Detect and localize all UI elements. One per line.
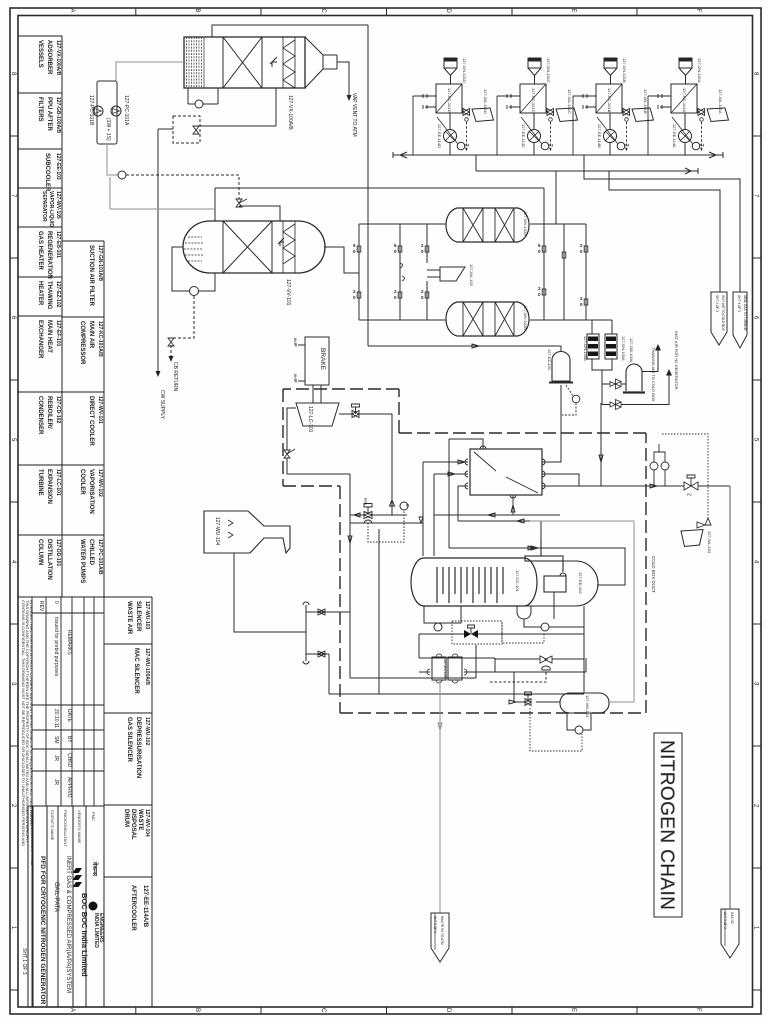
wire vessel top to right header — [212, 25, 368, 37]
wire web 678 — [350, 645, 476, 678]
svg-text:127-WV-102: 127-WV-102 — [97, 469, 103, 497]
svg-text:BOC BOC India Limited: BOC BOC India Limited — [80, 893, 89, 977]
svg-text:COMPRESSOR: COMPRESSOR — [79, 321, 85, 365]
svg-text:127-WL-101C: 127-WL-101C — [567, 89, 572, 114]
svg-text:A: A — [69, 9, 75, 13]
wire CB return dashed — [171, 296, 194, 358]
control valve black — [464, 625, 478, 638]
border ticks right — [753, 136, 762, 990]
PRV control valve assembly — [350, 513, 407, 517]
wire CC101 trap — [517, 592, 584, 627]
wire vessel2 top nozzle — [214, 188, 216, 221]
svg-text:COLUMN: COLUMN — [37, 539, 43, 565]
brake nozzles — [296, 344, 305, 383]
wire web 694 — [329, 693, 584, 695]
stack silencer 127-WU-104 — [204, 511, 290, 553]
equipment table column 3 grid — [104, 597, 152, 1007]
svg-text:MAIN AIR: MAIN AIR — [88, 321, 94, 349]
vessel VX-100B dome hatch — [184, 237, 203, 261]
svg-text:0: 0 — [53, 601, 59, 604]
svg-text:127-CD-102: 127-CD-102 — [55, 396, 61, 423]
wire turbine inlet lower — [287, 458, 350, 474]
svg-text:WASTE N2 TO ATM: WASTE N2 TO ATM — [440, 916, 444, 945]
instrument bubble G sump — [434, 623, 442, 631]
svg-text:वेकन्स: वेकन्स — [91, 861, 99, 877]
svg-text:F: F — [695, 9, 701, 13]
vessel VX-100A X-bed — [223, 37, 262, 88]
svg-text:127-EF-101: 127-EF-101 — [55, 320, 61, 347]
wire frame vertical 564 — [563, 224, 565, 320]
svg-text:B: B — [194, 1008, 200, 1012]
instrument bubbles 3 3 — [650, 444, 669, 486]
instrument bubble PDI — [195, 100, 203, 108]
pump 127-PC-101B — [93, 106, 103, 116]
svg-text:D: D — [445, 9, 451, 14]
signal dotted sump — [502, 623, 544, 643]
header A suction — [393, 152, 723, 158]
svg-text:THAWING: THAWING — [46, 281, 52, 310]
instrument bubble G reboiler — [541, 623, 549, 631]
wire thawing air line — [602, 350, 658, 384]
vessel VX-100B chevron band — [283, 221, 295, 273]
wire lateral 515 — [434, 513, 560, 517]
signal dotted to PSV — [662, 434, 708, 518]
svg-text:PPU AFTER: PPU AFTER — [46, 97, 52, 131]
svg-text:CHILLED: CHILLED — [88, 539, 94, 566]
equipment table col1 texts — [37, 40, 61, 580]
svg-text:INTENDED THIRD PARTIES WITHOUT: INTENDED THIRD PARTIES WITHOUT CONSENT A… — [29, 600, 34, 827]
svg-text:VENDOR'S NAME: VENDOR'S NAME — [77, 810, 82, 844]
wire drum bottom loop — [567, 713, 591, 730]
svg-text:FILTERS: FILTERS — [37, 97, 43, 122]
svg-text:127-WL-104: 127-WL-104 — [707, 531, 712, 554]
wire inst air line — [602, 375, 669, 405]
svg-text:SHT 2 OF 3: SHT 2 OF 3 — [715, 295, 719, 312]
vessel 127-VX-100B regen adsorber body — [183, 221, 325, 273]
svg-text:(1W + 1S): (1W + 1S) — [105, 118, 111, 141]
svg-text:127-EZ-101: 127-EZ-101 — [547, 349, 552, 371]
signal dashed to valve — [490, 671, 546, 682]
svg-text:SUCTION AIR FILTER: SUCTION AIR FILTER — [88, 245, 94, 307]
vessel VX-100B X-bed — [223, 221, 272, 273]
svg-text:WASTE AIR: WASTE AIR — [126, 601, 132, 635]
valve turbine outlet with actuator — [352, 404, 360, 418]
wire vap vent — [337, 62, 349, 96]
wire utility to vessel1 bottom — [200, 88, 276, 126]
wire lateral 523 — [350, 517, 423, 523]
wire EP nozzle 462 — [423, 460, 468, 464]
valve inst air double — [610, 400, 621, 410]
valve thawing double — [610, 379, 621, 389]
svg-text:127-VX-100A/B: 127-VX-100A/B — [287, 95, 293, 130]
svg-text:GAS SILENCER: GAS SILENCER — [126, 717, 132, 763]
svg-text:127-PC-101B: 127-PC-101B — [88, 95, 94, 126]
flag P2 waste air — [733, 292, 747, 348]
wire frame vertical 427 — [426, 224, 428, 320]
signal dotted LV loop — [530, 708, 582, 751]
svg-text:EXPANSION: EXPANSION — [46, 469, 52, 504]
wire frame vertical 359 — [358, 224, 360, 320]
wire waste N2 down gray — [438, 678, 442, 913]
svg-text:SILENCER: SILENCER — [135, 601, 141, 632]
valve manifold lower — [318, 651, 325, 657]
svg-text:127-EE-114D: 127-EE-114D — [437, 124, 442, 148]
PSV relief valve — [697, 518, 711, 528]
svg-text:127-WL-101A: 127-WL-101A — [718, 89, 723, 114]
wire EP nozzle 486 — [458, 486, 468, 521]
svg-text:CONDENSER: CONDENSER — [37, 396, 43, 435]
svg-text:127-PC-101A/B: 127-PC-101A/B — [97, 539, 103, 575]
svg-text:127-GB-100A: 127-GB-100A — [629, 338, 634, 363]
flag waste N2 bottom — [431, 913, 449, 962]
CC101 left sump — [424, 606, 461, 623]
svg-text:WATER PUMPS: WATER PUMPS — [79, 539, 85, 583]
svg-text:SHT 2 OF 3: SHT 2 OF 3 — [433, 916, 437, 933]
svg-text:127-GN-100B: 127-GN-100B — [583, 336, 588, 361]
svg-text:127-EE-114A: 127-EE-114A — [672, 124, 677, 148]
svg-text:127-GN-101D: 127-GN-101D — [462, 58, 467, 83]
svg-text:127-WV-101: 127-WV-101 — [97, 396, 103, 424]
svg-text:Issued for prebid purposes: Issued for prebid purposes — [53, 617, 59, 677]
wire regen header — [215, 187, 544, 189]
svg-text:127-DD-101: 127-DD-101 — [55, 539, 61, 566]
svg-text:VESSELS: VESSELS — [37, 40, 43, 68]
svg-text:127-WL-101D: 127-WL-101D — [483, 89, 488, 114]
heater 127-GN-100A — [605, 334, 617, 359]
nitrogen chain box — [654, 733, 682, 917]
border ticks top — [136, 8, 637, 16]
svg-text:INERT GAS & COMPRESSED AIR(IA/: INERT GAS & COMPRESSED AIR(IA/PA)SYSTEM — [65, 856, 71, 993]
svg-text:COLD BOX DUCT: COLD BOX DUCT — [651, 556, 656, 593]
wire valve to vessel2 top — [239, 206, 280, 221]
EP-101 nozzles — [465, 446, 545, 498]
svg-text:SM: SM — [53, 736, 59, 744]
svg-text:127-KC-101A/B: 127-KC-101A/B — [97, 321, 103, 357]
svg-text:GAS N2: GAS N2 — [730, 912, 734, 924]
border grid numbers left — [10, 72, 16, 930]
svg-text:ADSORBER: ADSORBER — [46, 40, 52, 75]
svg-text:127-KC-101D: 127-KC-101D — [447, 88, 452, 113]
svg-text:JR: JR — [53, 755, 59, 762]
svg-text:D: D — [445, 1008, 451, 1013]
header B discharge — [476, 168, 698, 174]
border grid letters top — [69, 9, 701, 14]
reboiler condenser 127-CC-101 — [411, 558, 537, 606]
compressor unit 1 127-KC-101A — [413, 58, 494, 155]
svg-text:TURBINE: TURBINE — [37, 469, 43, 496]
vessel VX-100A chevron band — [283, 37, 295, 88]
wire frame vertical 544 — [543, 188, 545, 320]
svg-text:INST AIR FOR N2 GENERATOR: INST AIR FOR N2 GENERATOR — [674, 331, 679, 390]
svg-text:NITROGEN CHAIN: NITROGEN CHAIN — [656, 740, 677, 910]
svg-text:C: C — [320, 9, 326, 14]
compressor unit 2 127-KC-101B — [497, 58, 578, 155]
svg-text:BKO: BKO — [293, 338, 297, 346]
wire riser 423 — [422, 462, 424, 556]
svg-text:127-GB-100A/B: 127-GB-100A/B — [55, 97, 61, 134]
border grid numbers right — [753, 72, 759, 930]
svg-text:MAIN HEAT: MAIN HEAT — [46, 320, 52, 353]
wire vessel2 outlet right — [324, 247, 359, 273]
svg-text:127-WU-100A/B: 127-WU-100A/B — [144, 648, 150, 685]
svg-text:COOLER: COOLER — [79, 469, 85, 495]
confidentiality note strip — [21, 600, 34, 846]
vessel VX-100B flow arrow — [278, 238, 284, 246]
brake box — [305, 337, 329, 385]
vessel 127-WV-102B vaporisation cooler — [446, 302, 529, 336]
signal dashed M to valve — [126, 175, 239, 199]
wire lateral 521 — [458, 519, 634, 523]
svg-text:127-GN-101A/B: 127-GN-101A/B — [97, 245, 103, 282]
svg-text:THAWING AIR TO COLD BOX: THAWING AIR TO COLD BOX — [651, 347, 656, 402]
cold box boundary dashed — [283, 389, 646, 713]
vessel VX-100A flow arrow — [270, 57, 277, 67]
svg-text:127-EE-103: 127-EE-103 — [55, 153, 61, 180]
svg-text:127-LC-101: 127-LC-101 — [55, 469, 61, 496]
svg-text:WASTE: WASTE — [137, 809, 143, 830]
heater 127-GN-100B — [587, 334, 599, 359]
svg-text:127-WU-103: 127-WU-103 — [144, 601, 150, 630]
svg-text:CHKD: CHKD — [66, 753, 72, 768]
BOC logo stripes — [73, 868, 83, 887]
revision table grid — [18, 597, 104, 1007]
svg-text:REMARKS: REMARKS — [66, 630, 72, 655]
svg-text:PFD FOR CRYOGENIC NITROGEN GEN: PFD FOR CRYOGENIC NITROGEN GENERATOR — [39, 856, 46, 1005]
pump 127-PC-101A — [111, 106, 121, 116]
svg-text:APPRVD: APPRVD — [66, 777, 72, 798]
svg-text:127-EV-103: 127-EV-103 — [443, 659, 447, 678]
signal dotted PRV loop — [368, 511, 404, 542]
svg-text:BRAKE: BRAKE — [319, 348, 326, 371]
wire instrument M lower — [110, 177, 215, 209]
svg-text:B: B — [194, 9, 200, 13]
wire product N2 down — [729, 486, 731, 909]
svg-text:127-WU-102: 127-WU-102 — [144, 717, 150, 746]
wire frame top 224 — [359, 223, 586, 225]
wire PRV arrow up — [390, 500, 395, 515]
wire bottoms line 634 — [419, 634, 584, 658]
svg-text:127-GN-100A: 127-GN-100A — [621, 336, 626, 361]
wire frame vertical 586 — [585, 224, 587, 320]
svg-text:127-WV-104: 127-WV-104 — [144, 809, 150, 837]
svg-text:127-GN-101A: 127-GN-101A — [697, 58, 702, 83]
wire web riser 329 — [328, 654, 330, 694]
svg-text:DRUM: DRUM — [123, 809, 129, 827]
svg-text:VAPOR-LIQUID: VAPOR-LIQUID — [48, 191, 54, 227]
svg-text:DIRECT COOLER: DIRECT COOLER — [88, 396, 94, 446]
equipment table column 2 grid — [62, 241, 104, 597]
wire riser 434 — [433, 474, 435, 556]
wire vessel2 bottom to G — [172, 247, 215, 291]
wire frame vertical 370 — [367, 25, 369, 346]
svg-text:DISTILLATION: DISTILLATION — [46, 539, 52, 580]
wire EP top feed — [449, 439, 483, 548]
svg-text:127-EZ-102: 127-EZ-102 — [55, 281, 61, 308]
svg-text:127-EE-114C: 127-EE-114C — [521, 124, 526, 148]
border ticks bottom — [136, 1008, 637, 1015]
svg-text:127-ED-102: 127-ED-102 — [578, 572, 583, 594]
svg-text:EXCHANGER: EXCHANGER — [37, 320, 43, 359]
heat exchanger 127-EV-103 — [427, 654, 467, 683]
instrument bubble G — [190, 287, 199, 296]
wire EH risers down — [599, 403, 603, 486]
svg-text:127-LC-101: 127-LC-101 — [307, 406, 313, 433]
wire drum feed 659 — [495, 606, 584, 693]
wire EZ101 to EP nozzle — [542, 385, 561, 462]
funnel silencer 127-WL-102 — [427, 267, 465, 281]
svg-text:127-WV-102B: 127-WV-102B — [523, 305, 528, 330]
svg-text:E: E — [570, 1008, 576, 1012]
wire EP right 474 — [542, 474, 579, 486]
wire utility box to CW line — [158, 128, 173, 130]
EIL logo dot — [89, 902, 98, 911]
unit tags — [437, 58, 723, 148]
svg-text:PRV: PRV — [363, 498, 367, 506]
svg-text:INDIA LIMITED: INDIA LIMITED — [93, 913, 99, 948]
svg-text:AFTERCOOLER: AFTERCOOLER — [130, 885, 136, 931]
wire web riser 350 — [348, 474, 352, 678]
svg-text:127-KC-101A: 127-KC-101A — [682, 88, 687, 113]
vessel 127-EZ-101 — [552, 352, 570, 382]
svg-text:INST AIR TO COLD BOX: INST AIR TO COLD BOX — [721, 295, 725, 332]
svg-text:127-WL-101B: 127-WL-101B — [643, 89, 648, 114]
svg-text:DISPOSAL: DISPOSAL — [130, 809, 136, 840]
pump skid box — [97, 81, 117, 144]
wire web 672 — [419, 658, 586, 672]
dashed utility box — [173, 116, 200, 143]
svg-text:BKO: BKO — [293, 374, 297, 382]
instrument bubble 3 — [400, 502, 408, 510]
svg-text:127-WU-104: 127-WU-104 — [214, 517, 220, 546]
valve manifold upper — [318, 609, 325, 615]
svg-text:GAIL-PATA: GAIL-PATA — [53, 882, 59, 912]
svg-text:127-PC-101A: 127-PC-101A — [123, 95, 129, 126]
border grid letters bottom — [69, 1008, 701, 1013]
valve at boundary crossing — [284, 449, 295, 458]
drum 127-WV-103 — [560, 693, 609, 713]
svg-text:SHT 1 OF 3: SHT 1 OF 3 — [21, 948, 27, 975]
svg-text:SUBCOOLER: SUBCOOLER — [44, 153, 50, 192]
svg-text:127-KC-101C: 127-KC-101C — [531, 88, 536, 113]
vessel VX-100A bottom loop — [188, 88, 218, 104]
svg-text:C: C — [320, 1008, 326, 1013]
wire pump box to instrument M — [107, 144, 118, 175]
wire CW supply — [157, 129, 159, 372]
svg-text:E: E — [570, 9, 576, 13]
svg-text:CLIENT'S NAME: CLIENT'S NAME — [50, 810, 55, 841]
wire frame vertical 556 — [555, 171, 557, 224]
wire lateral 548 — [449, 546, 625, 585]
svg-text:CW SUPPLY: CW SUPPLY — [159, 390, 165, 420]
svg-text:127-EE-114B: 127-EE-114B — [597, 124, 602, 148]
wire pump discharge to vessel — [116, 62, 184, 81]
svg-text:GAS HEATER: GAS HEATER — [37, 231, 43, 271]
svg-text:DATE: DATE — [66, 709, 72, 723]
svg-text:HEATER: HEATER — [37, 281, 43, 306]
squiggle hose upper — [400, 263, 405, 281]
svg-text:BY: BY — [66, 736, 72, 743]
wire drum outlet gray — [530, 521, 634, 702]
svg-text:127-GN-101B: 127-GN-101B — [622, 58, 627, 83]
wire stack outlet — [234, 553, 306, 632]
turbine 127-LC-101 — [296, 403, 339, 426]
compressor unit 4 127-KC-101D — [648, 58, 729, 155]
valve in utility box — [193, 126, 199, 134]
wire turbine outlet — [339, 414, 392, 515]
svg-text:A: A — [69, 1008, 75, 1012]
svg-text:VAPORISATION: VAPORISATION — [88, 469, 94, 514]
svg-text:PV: PV — [687, 493, 692, 497]
svg-text:REGENERATION: REGENERATION — [46, 231, 52, 279]
title block grid — [28, 806, 104, 1007]
wire long 346 — [368, 344, 561, 348]
instrument bubble LT — [575, 726, 583, 734]
instrument bubble M — [118, 171, 126, 179]
svg-text:DRAWING/DOCUMENT TITLE: DRAWING/DOCUMENT TITLE — [30, 810, 35, 866]
svg-text:127-KC-101B: 127-KC-101B — [607, 88, 612, 113]
vessel 127-GB-100A — [626, 364, 642, 391]
border ticks left — [10, 136, 18, 990]
valve LV — [525, 692, 532, 706]
svg-text:VAP VENT TO ATM: VAP VENT TO ATM — [351, 93, 357, 137]
svg-text:SHT 2 OF 3: SHT 2 OF 3 — [723, 912, 727, 929]
svg-text:127-EE-114A/B: 127-EE-114A/B — [142, 885, 148, 928]
svg-text:127-WV-105: 127-WV-105 — [55, 191, 61, 219]
turbine shaft — [313, 385, 321, 403]
revision table texts — [38, 601, 72, 798]
wire EP nozzle 474 — [434, 472, 468, 476]
wire frame bottom 320 — [359, 320, 612, 334]
svg-text:127-WV-103: 127-WV-103 — [585, 695, 590, 718]
compressor unit 3 127-KC-101C — [573, 58, 654, 155]
vessel 127-WV-102A direct cooler — [446, 208, 529, 242]
valve drum feed — [540, 656, 552, 670]
svg-text:127-VV-101: 127-VV-101 — [285, 279, 291, 306]
dotted enclosure around valve — [452, 621, 502, 644]
wire header B risers — [475, 155, 477, 171]
flag P1 inst air — [711, 292, 727, 345]
EP-101 internal passes — [474, 452, 538, 493]
wire EP right 486 main — [542, 484, 730, 488]
svg-text:SEAL GAS TO TURBINE: SEAL GAS TO TURBINE — [743, 295, 747, 331]
flag product N2 bottom — [721, 909, 739, 958]
wire EP bottom nozzle — [511, 495, 515, 515]
svg-text:127-EB-101: 127-EB-101 — [55, 231, 61, 258]
svg-text:F: F — [695, 1008, 701, 1012]
svg-text:REBOILER/: REBOILER/ — [46, 396, 52, 429]
instrument bubble PT — [562, 385, 580, 415]
svg-text:SHT 3 OF 3: SHT 3 OF 3 — [737, 295, 741, 312]
tag 127-VX-100B — [285, 279, 291, 306]
svg-text:127-CC-101: 127-CC-101 — [515, 570, 520, 593]
depressurisation manifold — [303, 602, 350, 664]
vessel VX-100A hatch band — [187, 37, 205, 88]
valve CB return — [168, 338, 174, 346]
svg-text:MAC SILENCER: MAC SILENCER — [133, 648, 139, 694]
wire ED102 right dome feed — [531, 521, 625, 550]
spec break marks with sizes — [353, 243, 588, 307]
svg-text:PMC/CONSULTANT: PMC/CONSULTANT — [63, 810, 68, 847]
wire LV line — [509, 672, 560, 704]
subcooler drum 127-ED-102 — [525, 540, 598, 606]
wire to flag P1 — [584, 155, 740, 292]
svg-text:DEPRESSURISATION: DEPRESSURISATION — [135, 717, 141, 778]
wire turbine inlet — [287, 408, 296, 450]
svg-text:SEPARATOR: SEPARATOR — [41, 191, 47, 222]
svg-text:CONTAINS IS CONFIDENTIAL. THIS: CONTAINS IS CONFIDENTIAL. THIS DRAWING M… — [21, 600, 26, 846]
valve PV with actuator — [684, 475, 698, 497]
equipment table column 1 grid — [18, 36, 62, 597]
